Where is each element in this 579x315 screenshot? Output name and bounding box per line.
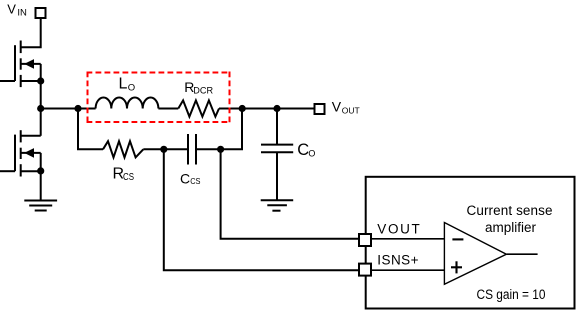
- svg-text:amplifier: amplifier: [485, 220, 537, 235]
- svg-text:O: O: [128, 83, 135, 94]
- svg-text:CS: CS: [123, 171, 134, 183]
- svg-text:V: V: [332, 99, 342, 115]
- svg-text:O: O: [308, 148, 315, 158]
- svg-text:CS gain = 10: CS gain = 10: [477, 287, 546, 302]
- svg-text:L: L: [119, 76, 128, 93]
- svg-text:V: V: [7, 2, 16, 17]
- svg-text:OUT: OUT: [342, 106, 360, 116]
- svg-text:VOUT: VOUT: [377, 222, 420, 237]
- svg-text:CS: CS: [190, 176, 201, 186]
- svg-text:C: C: [180, 170, 190, 186]
- svg-text:DCR: DCR: [193, 86, 213, 97]
- svg-text:IN: IN: [17, 8, 27, 19]
- svg-text:ISNS+: ISNS+: [377, 252, 418, 267]
- svg-text:Current sense: Current sense: [467, 203, 553, 218]
